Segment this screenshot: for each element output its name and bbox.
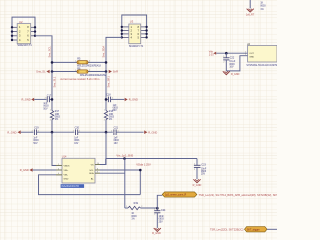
port R_GND cap row right [144,130,147,134]
wire left rail row2 to cap row [51,72,53,111]
svg-text:1: 1 [118,131,119,133]
svg-text:Sns_SL1: Sns_SL1 [53,76,57,87]
svg-text:2: 2 [89,70,90,72]
resistor RS6 current sense row2 [77,70,88,73]
capacitor C22 [225,53,227,57]
svg-text:2A: 2A [247,43,250,46]
wire cap row segment 1 [21,131,34,133]
svg-text:50V: 50V [43,108,48,110]
svg-text:2: 2 [154,214,155,216]
IC U14 INA230 body [62,158,95,183]
capacitor C18 [106,98,108,100]
svg-text:R_GND: R_GND [129,98,138,102]
svg-text:2: 2 [245,54,246,56]
IC U24 oscillator body [248,45,277,62]
svg-text:R_GND: R_GND [148,130,157,134]
svg-text:0603: 0603 [201,171,207,173]
svg-text:U14: U14 [62,156,67,159]
svg-text:1: 1 [79,131,80,133]
svg-text:1.05: 1.05 [209,53,214,56]
wire right rail row1 to row2 [105,62,107,71]
svg-text:50V: 50V [33,143,38,145]
svg-text:1v8_RT: 1v8_RT [246,13,255,16]
svg-text:VBUS: VBUS [64,165,70,167]
wire U2 exit to left rail [35,36,52,63]
svg-text:10: 10 [97,163,99,165]
IC U3 left pins [122,27,129,38]
IC U14 pin stubs [56,165,100,175]
svg-text:2: 2 [45,98,46,100]
svg-text:1: 1 [223,56,224,58]
svg-text:0603: 0603 [33,140,39,142]
svg-text:WSL2512R0200FEA18: WSL2512R0200FEA18 [77,64,102,67]
svg-text:1: 1 [194,163,195,165]
svg-text:TSR_Lev(22), SIL7IT14_BWS_APB_: TSR_Lev(22), SIL7IT14_BWS_APB_adorned(28… [199,193,277,197]
IC U2 left pins [12,27,17,40]
svg-text:0603: 0603 [260,6,266,8]
wire R19 to node [141,207,158,209]
svg-text:0.1uF: 0.1uF [229,61,235,63]
resistor R16 value block top right [260,3,266,11]
svg-text:1: 1 [75,61,76,63]
svg-text:0603: 0603 [229,64,235,66]
wire VS row to C23 [106,158,197,160]
svg-text:R19: R19 [134,202,139,205]
svg-text:1nF: 1nF [114,137,119,139]
svg-text:R_GND: R_GND [152,232,161,235]
svg-text:WSL2512R0200FEA18W: WSL2512R0200FEA18W [80,74,107,77]
svg-text:0603: 0603 [113,108,119,110]
ground C23 [193,179,200,182]
svg-text:0603: 0603 [159,219,165,221]
wire branch down to R19 [124,159,126,209]
IC U2 junction dots right [34,26,36,37]
port SKT_trigger [245,227,268,232]
svg-text:Vin_1p2_SNS: Vin_1p2_SNS [116,153,133,157]
svg-text:8: 8 [97,168,98,170]
resistor R18 [104,111,107,120]
svg-text:C22: C22 [230,57,235,60]
wire to oscillator [216,52,247,54]
svg-text:2: 2 [73,131,74,133]
svg-text:1: 1 [126,206,127,208]
svg-text:1%: 1% [260,9,263,11]
svg-text:R_GND: R_GND [7,130,16,134]
svg-text:SiT1533AI-H4-D14-DCC32768: SiT1533AI-H4-D14-DCC32768 [246,64,277,67]
wire oscillator GND pin down [226,56,247,71]
wire node up to port1 [157,195,162,208]
wire right rail down to INA pinA [95,132,106,164]
resistor R17 [50,111,53,120]
wire top right power [249,0,251,8]
svg-text:1nF: 1nF [43,103,48,105]
svg-text:2: 2 [194,169,195,171]
svg-text:1nF: 1nF [74,137,79,139]
ground C24 [154,228,161,231]
wire cap branch left [34,98,46,100]
resistor RS5 current sense row1 [77,61,88,64]
svg-text:16V: 16V [114,143,119,145]
svg-text:50V: 50V [113,110,118,112]
svg-text:TSR_Lev(22D), SKT22B(2C): TSR_Lev(22D), SKT22B(2C) [210,228,244,232]
svg-text:0603: 0603 [43,106,49,108]
capacitor C19 [34,129,36,135]
svg-text:Sns_SDA: Sns_SDA [102,46,106,58]
svg-text:25V: 25V [201,174,206,176]
IC U3 right pins [141,27,147,38]
pin number marks oscillator [245,52,246,57]
svg-text:0603: 0603 [74,140,80,142]
svg-text:C24: C24 [161,209,166,212]
svg-text:2: 2 [104,120,105,122]
IC U2 right pins [31,27,35,36]
IC U2 pin numbers [19,25,29,42]
svg-text:R_GND: R_GND [193,184,202,187]
svg-text:1nF: 1nF [33,137,38,139]
svg-text:9: 9 [97,172,98,174]
svg-text:1: 1 [38,131,39,133]
wire right rail row2 to cap row [105,72,107,111]
svg-text:OUT: OUT [249,53,254,55]
svg-text:2: 2 [141,206,142,208]
svg-text:25V: 25V [159,221,164,223]
svg-text:C19: C19 [34,126,39,129]
svg-text:C18: C18 [106,94,111,97]
svg-text:1: 1 [154,209,155,211]
svg-text:R_GND: R_GND [20,168,29,172]
wire left rail resistor to cap row [51,120,53,133]
IC U3 junction dots left [121,26,123,39]
port Sns_SL left [46,70,49,74]
wire row2 left [52,71,77,73]
svg-text:VIN-: VIN- [64,175,69,177]
wire port to INA pin2 [33,169,62,171]
svg-text:1%: 1% [55,119,58,121]
svg-text:4: 4 [58,173,59,175]
svg-text:0603: 0603 [114,140,120,142]
pin number marks caps row [32,56,225,216]
svg-text:1: 1 [104,109,105,111]
svg-text:C23: C23 [201,163,206,166]
wire left rail row1 to row2 [51,62,53,71]
wire cap row segment 3 [78,131,113,133]
svg-text:SI4421DY-T1: SI4421DY-T1 [17,44,32,47]
svg-text:2: 2 [112,98,113,100]
IC U14 part name highlighted [61,184,85,188]
svg-text:U3: U3 [130,20,134,24]
svg-text:Sns_SR1: Sns_SR1 [107,76,111,88]
svg-text:2: 2 [111,131,112,133]
ground oscillator [223,71,230,74]
svg-text:2: 2 [58,164,59,166]
svg-text:10nF: 10nF [201,168,207,170]
IC U24 pin labels [249,53,254,59]
IC U3 body [129,24,141,44]
wire row1 left [52,61,77,63]
capacitor C24 [156,208,158,211]
svg-text:R_GND: R_GND [231,73,240,76]
svg-text:16V: 16V [74,143,79,145]
junction dots rows [51,61,108,73]
svg-text:VIN+: VIN+ [64,170,70,172]
IC U3 top-middle wire loop [122,15,147,37]
capacitor C23 branch [196,159,198,166]
port R_GND right cap branch [125,98,128,102]
svg-text:current sense resistor 5.2m Oh: current sense resistor 5.2m Ohm [60,77,100,81]
svg-text:1K: 1K [260,3,263,5]
svg-text:Sns_SL: Sns_SL [36,70,46,74]
svg-text:C21: C21 [114,126,119,129]
wire row2 right [88,71,106,73]
capacitor C17 [47,97,49,103]
wire U3 exit to right rail [106,37,122,62]
wire cap row segment 2 [37,131,75,133]
wire INA pin3 U-path under IC [39,175,141,195]
wire cap row segment 4 [116,131,144,133]
svg-text:16V: 16V [229,67,234,69]
IC U14 pin labels [64,164,95,180]
svg-text:Sns_SCL: Sns_SCL [48,46,52,58]
IC U3 pin numbers [131,25,140,40]
port 1p2_sense_conn [162,192,197,197]
svg-text:SI4421DY-T1: SI4421DY-T1 [129,45,144,48]
port SnR right [109,70,112,74]
svg-text:C17: C17 [47,95,52,98]
svg-text:1: 1 [50,109,51,111]
svg-text:SDA: SDA [89,172,94,175]
svg-text:2: 2 [89,61,90,63]
port R_GND left cap branch [31,98,34,102]
pin number marks INA [58,163,99,175]
svg-text:1: 1 [75,70,76,72]
svg-text:2: 2 [50,120,51,122]
svg-text:0603: 0603 [131,216,137,218]
wire row1 right [88,61,106,63]
svg-text:1nF: 1nF [113,105,118,107]
power port down arrow top right [247,9,254,12]
IC U3 junction dots right [145,26,147,39]
capacitor C20 [76,129,78,135]
svg-text:SKT_trigger: SKT_trigger [247,228,260,231]
svg-text:3: 3 [58,168,59,170]
svg-text:VDda 1.25V: VDda 1.25V [136,162,151,166]
resistor R19 [125,207,128,209]
svg-text:1p2_sense_conn_R: 1p2_sense_conn_R [165,194,187,197]
wire port2 to edge [267,228,277,230]
IC U2 top-left wire loop [12,17,35,40]
wire left rail down to INA pin1 [52,132,62,165]
wire right rail resistor to cap row [105,120,107,133]
svg-text:GND: GND [249,57,254,59]
svg-text:10nF: 10nF [159,216,165,218]
IC U2 body [17,24,31,44]
wire INA pinC to alert node [95,172,125,174]
svg-text:1K: 1K [131,213,134,215]
svg-text:C20: C20 [75,126,80,129]
svg-text:INA230AIRGTR: INA230AIRGTR [61,185,79,188]
svg-text:1%: 1% [109,119,112,121]
IC U2 junction dots left [11,26,13,41]
svg-text:GND: GND [64,179,69,181]
wire INA pinB to VDDA node [95,169,140,171]
svg-text:1%: 1% [131,219,134,221]
svg-text:U2: U2 [19,20,23,24]
svg-text:2: 2 [32,131,33,133]
svg-text:R_GND: R_GND [22,98,31,102]
svg-text:2: 2 [223,62,224,64]
capacitor C21 [114,129,116,135]
svg-text:SnR: SnR [113,70,118,74]
